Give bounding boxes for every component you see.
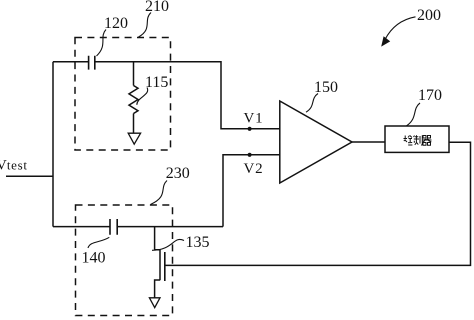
svg-text:Vtest: Vtest: [0, 157, 28, 173]
svg-text:120: 120: [104, 15, 128, 32]
svg-text:210: 210: [145, 0, 169, 15]
svg-text:V1: V1: [244, 110, 263, 126]
svg-text:150: 150: [314, 79, 338, 96]
svg-text:140: 140: [82, 250, 106, 267]
svg-text:200: 200: [417, 7, 441, 24]
svg-text:V2: V2: [244, 161, 263, 177]
svg-text:170: 170: [418, 87, 442, 104]
svg-text:230: 230: [166, 165, 190, 182]
svg-text:115: 115: [145, 74, 168, 91]
svg-text:135: 135: [186, 234, 210, 251]
